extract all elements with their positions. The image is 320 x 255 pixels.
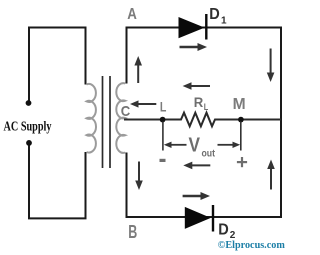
- svg-text:1: 1: [221, 16, 227, 27]
- svg-text:V: V: [189, 135, 201, 157]
- svg-text:D: D: [218, 222, 229, 239]
- svg-text:M: M: [233, 96, 246, 113]
- svg-text:D: D: [209, 6, 220, 23]
- svg-text:C: C: [121, 103, 131, 120]
- svg-text:AC Supply: AC Supply: [4, 119, 52, 134]
- svg-text:L: L: [160, 99, 167, 115]
- svg-text:L: L: [204, 102, 209, 113]
- svg-text:R: R: [194, 94, 204, 110]
- svg-text:out: out: [202, 149, 216, 160]
- svg-text:A: A: [127, 6, 137, 23]
- svg-text:B: B: [128, 222, 137, 242]
- svg-text:©Elprocus.com: ©Elprocus.com: [218, 239, 285, 251]
